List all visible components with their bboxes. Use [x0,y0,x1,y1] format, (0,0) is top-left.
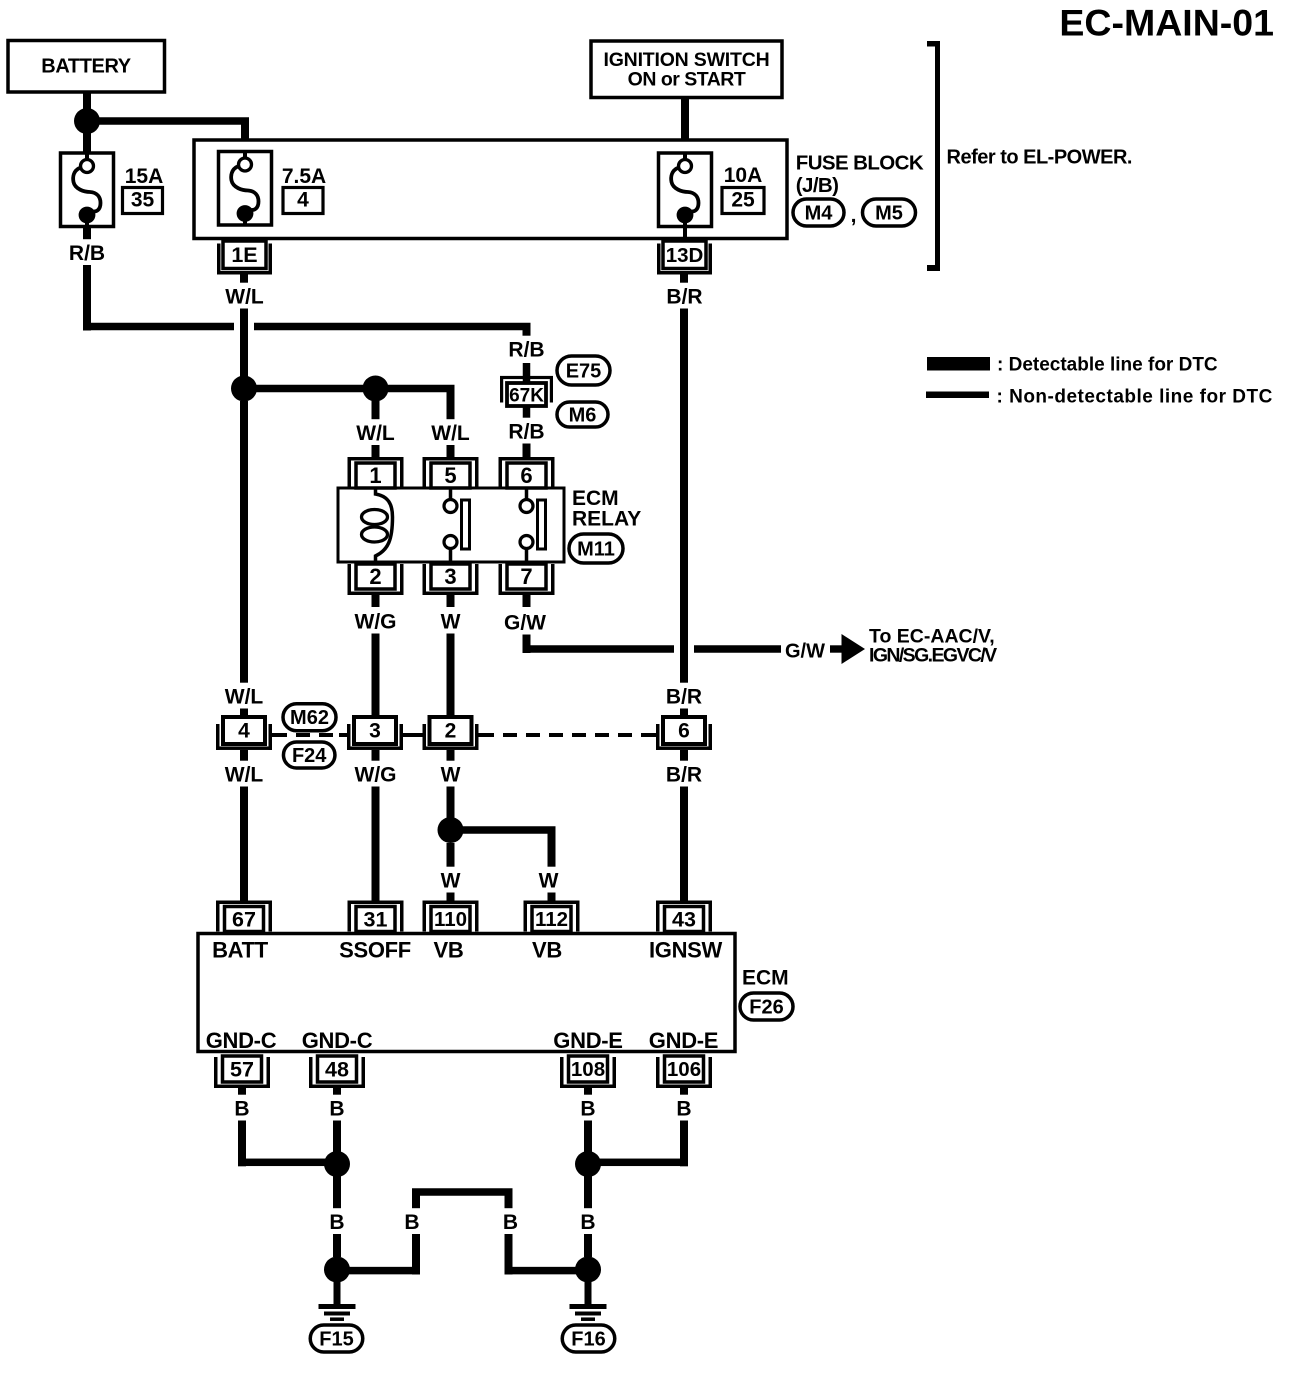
svg-text:W/L: W/L [225,286,264,309]
svg-text:ECM: ECM [742,967,789,990]
svg-text:W/G: W/G [355,611,397,634]
svg-text:M11: M11 [577,538,615,560]
svg-text:R/B: R/B [69,242,105,265]
svg-text:W: W [539,870,559,893]
svg-text:F24: F24 [292,745,327,767]
svg-text:F15: F15 [319,1328,353,1350]
svg-text:M62: M62 [290,707,329,729]
svg-text:6: 6 [678,720,690,743]
svg-text:2: 2 [369,564,381,589]
svg-text:ON or START: ON or START [628,69,746,91]
svg-text:F26: F26 [749,996,783,1018]
svg-text:25: 25 [731,189,755,212]
svg-text:B: B [580,1098,595,1121]
svg-text:B/R: B/R [666,686,702,709]
svg-text:W: W [441,870,461,893]
svg-text:48: 48 [325,1057,349,1081]
svg-text:E75: E75 [566,360,602,382]
svg-text:RELAY: RELAY [572,508,641,531]
svg-text:43: 43 [672,907,696,931]
svg-text:B: B [503,1211,518,1234]
svg-text:,: , [851,204,857,227]
svg-text:SSOFF: SSOFF [339,938,411,963]
svg-text:B: B [404,1211,419,1234]
svg-text:F16: F16 [571,1328,605,1350]
svg-text:M6: M6 [569,404,597,426]
svg-text:Refer to EL-POWER.: Refer to EL-POWER. [947,147,1132,169]
svg-text:31: 31 [364,907,388,931]
svg-text:W/G: W/G [355,764,397,787]
svg-text:57: 57 [230,1057,254,1081]
svg-text:: Non-detectable line for DTC: : Non-detectable line for DTC [997,387,1273,408]
svg-text:4: 4 [297,189,309,212]
svg-text:W/L: W/L [225,686,264,709]
svg-text:B: B [329,1211,344,1234]
svg-text:7: 7 [520,564,532,589]
svg-text:VB: VB [434,938,464,963]
svg-text:W: W [441,611,461,634]
svg-text:B: B [329,1098,344,1121]
svg-text:67K: 67K [509,386,544,407]
svg-text:67: 67 [232,907,256,931]
svg-text:(J/B): (J/B) [796,174,839,197]
svg-text:IGN/SG.EGVC/V: IGN/SG.EGVC/V [869,645,997,667]
svg-text:GND-C: GND-C [302,1028,373,1053]
svg-text:G/W: G/W [785,641,825,663]
svg-text:1: 1 [369,463,381,488]
svg-text:W: W [441,764,461,787]
svg-text:W/L: W/L [431,422,470,445]
svg-text:35: 35 [131,189,155,212]
svg-text:6: 6 [520,463,532,488]
svg-text:GND-E: GND-E [553,1028,622,1053]
svg-text:2: 2 [445,720,457,743]
svg-text:B: B [580,1211,595,1234]
svg-text:B/R: B/R [666,764,702,787]
svg-text:GND-E: GND-E [649,1028,718,1053]
svg-text:108: 108 [571,1058,605,1081]
svg-text:R/B: R/B [508,339,544,362]
svg-text:W/L: W/L [225,764,264,787]
svg-text:15A: 15A [125,165,164,188]
svg-text:M4: M4 [805,202,834,224]
svg-text:10A: 10A [724,164,763,187]
svg-text:R/B: R/B [508,421,544,444]
svg-text:3: 3 [369,720,381,743]
svg-text:1E: 1E [231,243,257,267]
svg-text:5: 5 [444,463,456,488]
svg-text:106: 106 [667,1058,701,1081]
svg-text:GND-C: GND-C [206,1028,277,1053]
svg-text:110: 110 [434,908,467,931]
svg-text:3: 3 [444,564,456,589]
svg-text:EC-MAIN-01: EC-MAIN-01 [1059,2,1274,44]
svg-text:13D: 13D [666,244,704,267]
svg-text:BATT: BATT [212,938,269,963]
svg-text:BATTERY: BATTERY [41,56,131,78]
svg-text:: Detectable line for DTC: : Detectable line for DTC [997,355,1218,376]
svg-text:G/W: G/W [504,612,546,635]
svg-text:IGNSW: IGNSW [649,938,723,963]
svg-text:W/L: W/L [356,422,395,445]
svg-text:VB: VB [532,938,562,963]
svg-text:FUSE BLOCK: FUSE BLOCK [796,152,924,175]
svg-text:M5: M5 [875,202,903,224]
svg-text:B/R: B/R [666,286,702,309]
svg-text:112: 112 [535,908,568,931]
svg-text:4: 4 [238,720,250,743]
svg-text:B: B [234,1098,249,1121]
svg-text:7.5A: 7.5A [282,165,326,188]
svg-text:B: B [676,1098,691,1121]
